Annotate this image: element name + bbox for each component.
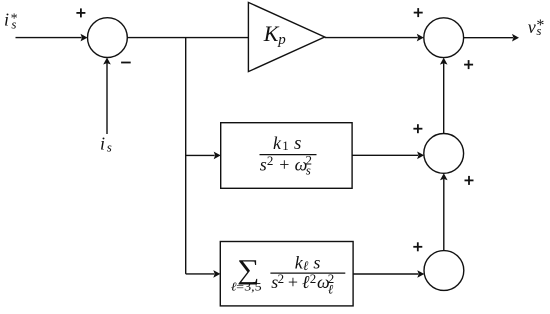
svg-text:s: s xyxy=(107,139,112,154)
plus sign at S3 upper-left xyxy=(413,124,422,133)
plus sign at S1 upper-left xyxy=(76,8,85,17)
node label is xyxy=(100,134,112,155)
middle block rectangle xyxy=(221,123,352,189)
svg-text:+: + xyxy=(279,154,289,174)
wire: bottom block output to S4 xyxy=(353,273,418,275)
gain block triangle Kp xyxy=(248,2,324,71)
wire: S3 up to S2 xyxy=(443,63,445,133)
summing junction S1 xyxy=(88,18,128,58)
wire: middle block output to S3 xyxy=(352,154,418,156)
svg-text:ℓ: ℓ xyxy=(328,281,334,296)
svg-text:s: s xyxy=(313,252,320,272)
summing junction S3 (middle right) xyxy=(424,134,464,174)
plus sign at S4 upper-left xyxy=(413,242,422,251)
bottom block transfer function sum_{l=3,5} kl s/(s^2+l^2 wl^2) xyxy=(231,252,345,296)
svg-text:+: + xyxy=(288,272,298,292)
wire: branch to middle block xyxy=(186,154,215,156)
arrowhead: into S4 left xyxy=(417,270,424,278)
wire: reference input line xyxy=(16,37,82,39)
minus sign at S1 lower-right xyxy=(121,62,131,64)
plus sign at S2 lower-right xyxy=(464,60,473,69)
arrowhead: into S3 bottom xyxy=(440,173,448,180)
svg-text:ℓ: ℓ xyxy=(302,272,310,292)
arrowhead: into bottom block xyxy=(213,270,220,278)
svg-text:i: i xyxy=(4,10,9,30)
arrowhead: into S3 left xyxy=(417,152,424,160)
arrowhead: into middle block xyxy=(214,152,221,160)
arrowhead: into S2 bottom xyxy=(440,58,448,65)
label Kp xyxy=(263,21,287,48)
svg-text:s: s xyxy=(294,133,301,154)
summing junction S4 (bottom right) xyxy=(424,251,464,291)
wire: S1 output to gain triangle xyxy=(127,37,248,39)
wire: feedback input is vertical xyxy=(106,63,108,134)
plus sign at S2 upper-left xyxy=(414,8,423,17)
node label vs* xyxy=(528,17,545,38)
wire: triangle apex to top summing junction xyxy=(325,37,418,39)
bottom block rectangle xyxy=(220,242,353,306)
summing junction S2 (top right) xyxy=(424,18,464,58)
svg-text:2: 2 xyxy=(310,271,317,286)
middle block transfer function k1 s / (s^2 + ws^2) xyxy=(260,133,317,177)
wire: branch to bottom block xyxy=(186,273,215,275)
svg-text:2: 2 xyxy=(267,153,274,168)
svg-text:2: 2 xyxy=(278,271,285,286)
wire: output line xyxy=(464,37,513,39)
arrowhead: output xyxy=(512,34,519,42)
svg-text:ℓ: ℓ xyxy=(303,258,309,273)
svg-text:K: K xyxy=(263,21,280,46)
svg-text:s: s xyxy=(260,154,267,174)
svg-text:1: 1 xyxy=(282,138,289,153)
svg-text:s: s xyxy=(11,16,16,31)
svg-text:i: i xyxy=(100,134,105,154)
svg-text:s: s xyxy=(306,162,311,177)
plus sign at S3 lower-right xyxy=(465,176,474,185)
svg-text:p: p xyxy=(277,32,286,48)
arrowhead: into S1 bottom xyxy=(103,58,111,65)
svg-text:s: s xyxy=(536,23,541,38)
arrowhead: into summing junction S1 left xyxy=(81,34,88,42)
svg-text:=3,5: =3,5 xyxy=(236,279,262,293)
wire: S4 up to S3 xyxy=(443,179,445,251)
svg-text:v: v xyxy=(528,17,536,37)
arrowhead: into S2 left xyxy=(417,34,424,42)
svg-text:k: k xyxy=(273,133,282,153)
wire: branch vertical line xyxy=(185,38,187,274)
node label is* xyxy=(4,10,18,32)
